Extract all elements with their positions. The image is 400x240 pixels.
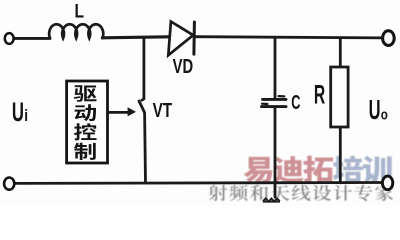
svg-text:o: o bbox=[381, 106, 388, 123]
svg-text:VT: VT bbox=[153, 99, 172, 122]
svg-text:R: R bbox=[314, 79, 325, 110]
svg-text:i: i bbox=[24, 107, 28, 126]
svg-text:U: U bbox=[12, 97, 24, 127]
svg-text:C: C bbox=[291, 91, 300, 114]
svg-text:VD: VD bbox=[173, 55, 194, 78]
svg-text:U: U bbox=[369, 93, 381, 125]
svg-text:L: L bbox=[75, 0, 85, 22]
